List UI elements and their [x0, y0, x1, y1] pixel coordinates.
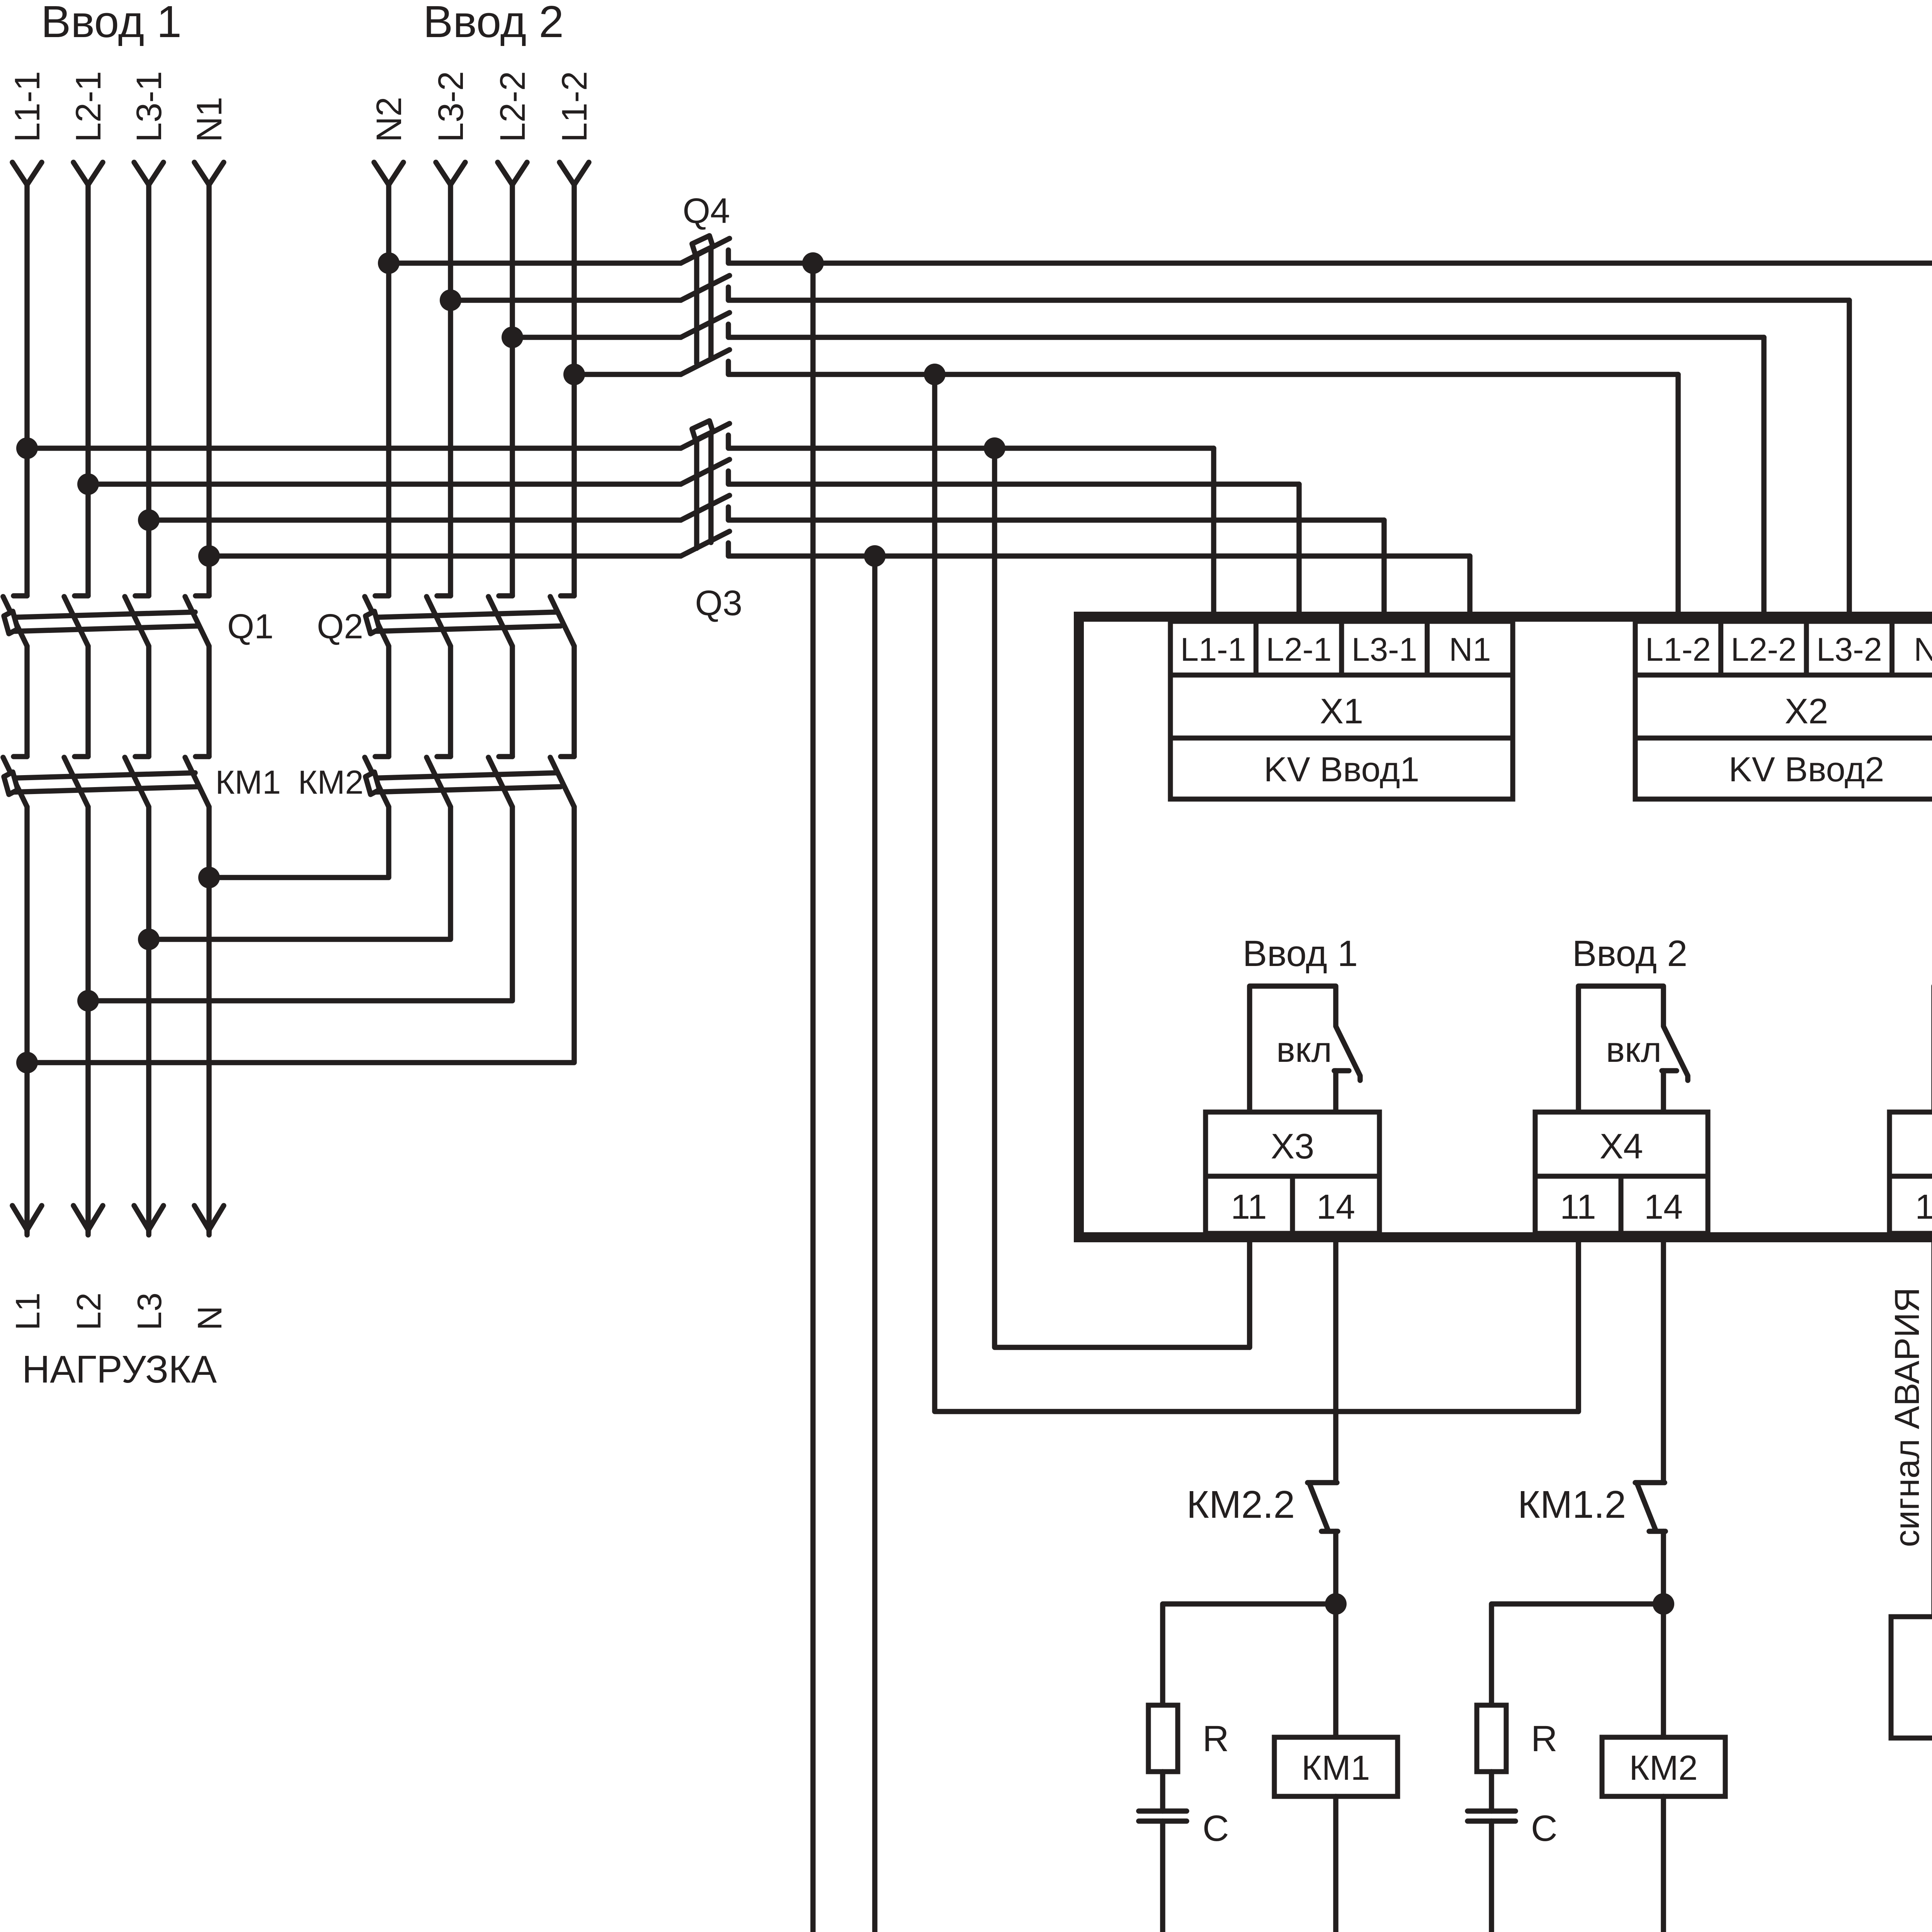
svg-text:L3: L3: [130, 1293, 168, 1330]
relay X3 contact bracket: [1250, 986, 1336, 1112]
svg-text:N1: N1: [1449, 631, 1491, 668]
terminal block X1 cells: [1170, 621, 1256, 675]
breaker Q2 pole 1: [375, 593, 389, 599]
svg-text:L3-2: L3-2: [431, 71, 471, 142]
svg-text:сигнал АВАРИЯ: сигнал АВАРИЯ: [1888, 1287, 1927, 1547]
terminal block X5: [1889, 1112, 1932, 1176]
svg-text:Ввод 1: Ввод 1: [1243, 933, 1358, 974]
wire load L2: [85, 807, 91, 1233]
wire Q1 pole 4 to KM1: [206, 646, 212, 757]
switch Q4 pole 4 (L1-2): [574, 372, 681, 377]
wire Q3.3 to X1 L3-1: [1381, 520, 1387, 622]
wire Q1 pole 2 to KM1: [85, 646, 91, 757]
node load merge L3: [138, 929, 160, 950]
wire X4-14 down: [1661, 1239, 1666, 1480]
svg-text:11: 11: [1231, 1188, 1267, 1226]
node L1-1-Q3 junction: [16, 437, 38, 459]
contactor KM2 pole 3: [499, 754, 512, 759]
output terminal arrow L1: [12, 1206, 42, 1230]
svg-text:Q3: Q3: [695, 583, 743, 623]
svg-text:L1: L1: [9, 1293, 47, 1330]
contactor KM1 pole 3: [135, 754, 149, 759]
svg-text:R: R: [1202, 1718, 1229, 1759]
wire KM2 pole 2 to load: [149, 807, 451, 939]
wire Q2 pole 3 to KM2: [510, 646, 515, 757]
switch Q3 pole 1 (L1-1): [27, 446, 681, 451]
switch Q4 pole 3 (L2-2): [512, 335, 681, 340]
svg-text:X3: X3: [1271, 1127, 1315, 1166]
wire L1-1 vertical: [24, 185, 30, 596]
wire X5-11 down: [1931, 1239, 1932, 1617]
wire Q1 pole 1 to KM1: [24, 646, 30, 757]
input terminal arrow L3-1: [134, 162, 163, 185]
breaker Q2 pole 3: [499, 593, 512, 599]
switch Q3 pole 4 (N1): [209, 553, 681, 559]
terminal block X1 row: [1170, 675, 1513, 738]
svg-text:L1-2: L1-2: [1645, 631, 1711, 668]
wire load L1: [24, 807, 30, 1233]
terminal X4 cell 14: [1621, 1176, 1708, 1233]
wire Q4.4 to X2 L1-2: [1675, 374, 1681, 622]
svg-text:L2-2: L2-2: [1731, 631, 1796, 668]
breaker Q1 mechanical link: [8, 612, 195, 617]
contactor KM1 pole 1: [14, 754, 27, 759]
node L2-1-Q3 junction: [77, 473, 99, 495]
svg-text:KV Ввод2: KV Ввод2: [1729, 750, 1884, 789]
svg-text:C: C: [1202, 1808, 1229, 1849]
relay X4 contact bracket: [1578, 986, 1663, 1112]
wire KM1 coil down: [1333, 1796, 1338, 1932]
wire N1 control drop: [875, 556, 1336, 1932]
capacitor C2: [1468, 1808, 1515, 1814]
input terminal arrow L1-1: [12, 162, 42, 185]
coil KM2: [1602, 1737, 1725, 1796]
wire KM1.2 to node: [1661, 1531, 1666, 1604]
node X3 RC junction: [1325, 1593, 1347, 1615]
wire N2 vertical: [386, 185, 391, 596]
contactor KM1 mechanical link: [8, 773, 195, 778]
svg-text:КМ1.2: КМ1.2: [1518, 1483, 1626, 1526]
wire RC1 branch: [1163, 1604, 1336, 1705]
svg-text:N1: N1: [190, 97, 229, 142]
svg-text:вкл: вкл: [1606, 1030, 1662, 1070]
wire Q3.1 to X1 L1-1: [1211, 448, 1216, 622]
svg-text:L3-2: L3-2: [1816, 631, 1882, 668]
switch Q4 mechanical link: [694, 246, 699, 363]
wire load N: [206, 807, 212, 1233]
wire R2 to C2: [1489, 1772, 1494, 1811]
svg-text:N: N: [190, 1306, 229, 1330]
terminal block X1 KV row: [1170, 738, 1513, 799]
terminal X3 cell 11: [1206, 1176, 1293, 1233]
wire X4-11 down: [1576, 1239, 1581, 1412]
svg-text:Q2: Q2: [317, 607, 363, 646]
terminal block X2 row: [1635, 675, 1932, 738]
box внешнее аварийное устройство: [1891, 1617, 1932, 1738]
wire R1 to C1: [1160, 1772, 1165, 1811]
contactor KM2 mechanical link: [369, 773, 557, 778]
input terminal arrow L3-2: [436, 162, 465, 185]
switch Q3 pole 2 (L2-1): [88, 481, 681, 487]
breaker Q2 pole 2: [437, 593, 451, 599]
svg-text:Ввод 1: Ввод 1: [41, 0, 182, 47]
terminal block X2 KV row: [1635, 738, 1932, 799]
svg-text:X1: X1: [1320, 692, 1364, 731]
node N1-Q3 junction: [198, 545, 220, 567]
svg-text:вкл: вкл: [1276, 1030, 1332, 1070]
device box МАВР-4-1М: [1079, 617, 1932, 1237]
relay X3 fixed contact: [1334, 1068, 1349, 1073]
switch Q4 pole 2 (L3-2): [451, 298, 681, 303]
wire L3-2 vertical: [448, 185, 453, 596]
breaker Q1 pole 2: [75, 593, 88, 599]
input terminal arrow L2-2: [498, 162, 527, 185]
svg-text:N2: N2: [1914, 631, 1932, 668]
wire L1-1 control drop to X3-11: [995, 448, 1250, 1347]
input terminal arrow N2: [374, 162, 403, 185]
svg-text:KV Ввод1: KV Ввод1: [1264, 750, 1420, 789]
node load merge N: [198, 867, 220, 888]
svg-text:L2: L2: [70, 1293, 108, 1330]
breaker Q1 pole 1: [14, 593, 27, 599]
relay X4 blade: [1663, 1026, 1688, 1080]
node X4 RC junction: [1653, 1593, 1674, 1615]
svg-text:L3-1: L3-1: [1352, 631, 1417, 668]
contact KM1.2 upper tick: [1635, 1480, 1665, 1485]
wire N1 vertical: [206, 185, 212, 596]
terminal block X2 cells: [1635, 621, 1721, 675]
wire L1-2 control drop to X4-11: [935, 374, 1578, 1412]
svg-text:X4: X4: [1600, 1127, 1643, 1166]
wire KM2 pole 4 to load: [27, 807, 574, 1063]
svg-text:КМ2.2: КМ2.2: [1187, 1483, 1295, 1526]
svg-text:Ввод 2: Ввод 2: [423, 0, 564, 47]
svg-text:L3-1: L3-1: [129, 71, 169, 142]
node tap L1-2 control: [924, 364, 946, 385]
wire Q2 pole 4 to KM2: [571, 646, 577, 757]
wire C1 down: [1160, 1821, 1165, 1932]
svg-text:14: 14: [1644, 1188, 1683, 1226]
wire KM2 pole 1 to load: [209, 807, 389, 878]
svg-text:КМ1: КМ1: [1301, 1749, 1370, 1787]
wire KM2.2 to node: [1333, 1531, 1338, 1604]
svg-text:11: 11: [1915, 1188, 1932, 1226]
relay X4 fixed contact: [1662, 1068, 1677, 1073]
node tap L1-1 control: [984, 437, 1005, 459]
contact KM2.2 lower tick: [1321, 1529, 1338, 1534]
input terminal arrow L2-1: [73, 162, 103, 185]
switch Q4 pole 1 (N2): [389, 260, 681, 266]
wire KM1 coil feed: [1333, 1604, 1338, 1737]
wire N2 control drop: [813, 263, 1663, 1932]
wire Q3.2 to X1 L2-1: [1296, 484, 1302, 622]
wire X3-11 down: [1247, 1239, 1252, 1347]
wire C2 down: [1489, 1821, 1494, 1932]
capacitor C1: [1139, 1808, 1187, 1814]
wire load L3: [146, 807, 151, 1233]
input terminal arrow L1-2: [560, 162, 589, 185]
svg-text:Ввод 2: Ввод 2: [1572, 933, 1687, 974]
svg-text:L2-1: L2-1: [69, 71, 108, 142]
contact KM2.2 blade: [1310, 1484, 1328, 1529]
contact KM2.2 upper tick: [1308, 1480, 1337, 1485]
terminal X5 cell 11: [1889, 1176, 1932, 1233]
node load merge L2: [77, 990, 99, 1012]
switch Q3 mechanical link: [694, 431, 699, 548]
wire KM2 coil down: [1661, 1796, 1666, 1932]
terminal block X4: [1535, 1112, 1708, 1176]
breaker Q1 pole 4: [196, 593, 209, 599]
wire Q4.2 to X2 L3-2: [1847, 300, 1852, 622]
node tap N2 control: [802, 252, 824, 274]
breaker Q1 pole 3: [135, 593, 149, 599]
svg-text:L1-1: L1-1: [8, 71, 47, 142]
svg-text:14: 14: [1316, 1188, 1355, 1226]
output terminal arrow L3: [134, 1206, 163, 1230]
contactor KM2 pole 1: [375, 754, 389, 759]
wire Q4.3 to X2 L2-2: [1761, 337, 1767, 622]
wire Q2 pole 2 to KM2: [448, 646, 453, 757]
svg-text:КМ2: КМ2: [1629, 1749, 1697, 1787]
svg-text:Q4: Q4: [683, 191, 730, 231]
node tap N1 control: [864, 545, 886, 567]
wire L1-2 vertical: [571, 185, 577, 596]
svg-text:C: C: [1531, 1808, 1558, 1849]
breaker Q2 pole 4: [561, 593, 574, 599]
contactor KM2 pole 4: [561, 754, 574, 759]
contactor KM2 pole 2: [437, 754, 451, 759]
svg-text:КМ1: КМ1: [215, 764, 281, 801]
svg-text:КМ2: КМ2: [298, 764, 364, 801]
wire Q1 pole 3 to KM1: [146, 646, 151, 757]
wire KM2 pole 3 to load: [88, 807, 512, 1001]
wire L2-1 vertical: [85, 185, 91, 596]
svg-text:L2-1: L2-1: [1266, 631, 1332, 668]
node L3-2-Q4 junction: [440, 289, 461, 311]
svg-text:НАГРУЗКА: НАГРУЗКА: [22, 1348, 217, 1391]
contact KM1.2 blade: [1637, 1484, 1655, 1529]
svg-text:11: 11: [1560, 1188, 1596, 1226]
wire KM2 coil feed: [1661, 1604, 1666, 1737]
terminal X3 cell 14: [1293, 1176, 1379, 1233]
switch Q3 pole 3 (L3-1): [149, 517, 681, 523]
wire X4-14 stub: [1661, 1071, 1666, 1112]
svg-text:L1-1: L1-1: [1180, 631, 1246, 668]
wire RC2 branch: [1492, 1604, 1663, 1705]
svg-text:N2: N2: [369, 97, 409, 142]
wire X3-14 stub: [1333, 1071, 1338, 1112]
node load merge L1: [16, 1052, 38, 1073]
contactor KM1 pole 2: [75, 754, 88, 759]
breaker Q2 mechanical link: [369, 612, 557, 617]
svg-text:R: R: [1531, 1718, 1558, 1759]
terminal block X3: [1206, 1112, 1379, 1176]
node L2-2-Q4 junction: [502, 327, 523, 348]
wire Q3.4 to X1 N1: [1467, 556, 1473, 622]
svg-text:L2-2: L2-2: [493, 71, 532, 142]
contactor KM1 pole 4: [196, 754, 209, 759]
wire Q2 pole 1 to KM2: [386, 646, 391, 757]
node N2-Q4 junction: [378, 252, 400, 274]
svg-text:L1-2: L1-2: [555, 71, 594, 142]
output terminal arrow N: [194, 1206, 224, 1230]
contact KM1.2 lower tick: [1649, 1529, 1665, 1534]
node L1-2-Q4 junction: [563, 364, 585, 385]
svg-text:X2: X2: [1785, 692, 1828, 731]
wire L3-1 vertical: [146, 185, 151, 596]
node L3-1-Q3 junction: [138, 509, 160, 531]
resistor R2: [1477, 1705, 1506, 1772]
wire L2-2 vertical: [510, 185, 515, 596]
input terminal arrow N1: [194, 162, 224, 185]
resistor R1: [1148, 1705, 1178, 1772]
output terminal arrow L2: [73, 1206, 103, 1230]
terminal X4 cell 11: [1535, 1176, 1621, 1233]
relay X3 blade: [1336, 1026, 1360, 1080]
coil KM1: [1274, 1737, 1398, 1796]
svg-text:Q1: Q1: [227, 607, 274, 646]
wire X3-14 down: [1333, 1239, 1338, 1480]
